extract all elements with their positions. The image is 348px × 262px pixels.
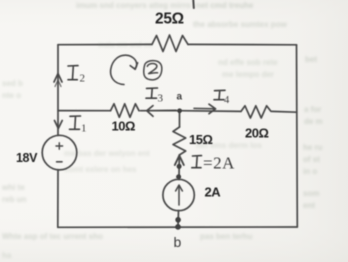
svg-text:somt exlere on hes: somt exlere on hes — [64, 165, 137, 174]
svg-text:ent: ent — [303, 201, 315, 210]
svg-text:nd effe sob rete: nd effe sob rete — [218, 58, 278, 67]
svg-text:imum snd conyers atteg mirro: imum snd conyers atteg mirro — [76, 1, 191, 10]
svg-text:20Ω: 20Ω — [245, 126, 268, 141]
svg-text:me lempo der: me lempo der — [222, 70, 274, 79]
svg-text:nte o: nte o — [2, 91, 21, 100]
svg-text:reb un: reb un — [2, 195, 27, 204]
svg-text:15Ω: 15Ω — [189, 132, 212, 147]
svg-text:25Ω: 25Ω — [155, 11, 184, 28]
svg-text:ha: ha — [2, 251, 12, 260]
svg-text:4: 4 — [224, 95, 230, 106]
svg-text:=2A: =2A — [203, 154, 235, 173]
svg-text:18V: 18V — [16, 151, 38, 165]
svg-text:2A: 2A — [205, 185, 222, 200]
svg-text:pas ben terhu: pas ben terhu — [200, 232, 253, 241]
svg-text:a for: a for — [304, 105, 321, 114]
svg-text:net cmd treuhe: net cmd treuhe — [196, 1, 254, 10]
svg-text:of st: of st — [303, 155, 320, 164]
svg-text:sed b: sed b — [2, 79, 23, 88]
svg-text:2: 2 — [80, 73, 86, 85]
svg-text:the absorbe sumtex pow: the absorbe sumtex pow — [193, 20, 288, 29]
svg-text:b: b — [174, 234, 182, 250]
svg-text:in o: in o — [303, 167, 317, 176]
svg-text:he ru: he ru — [303, 143, 323, 152]
svg-text:de m: de m — [304, 117, 323, 126]
svg-text:bet: bet — [305, 55, 317, 64]
svg-text:som: som — [303, 189, 319, 198]
svg-text:a: a — [177, 92, 183, 103]
svg-text:3: 3 — [158, 93, 164, 105]
svg-text:Whte asp of tec urrent sho: Whte asp of tec urrent sho — [2, 232, 103, 241]
svg-text:1: 1 — [81, 123, 87, 135]
svg-text:10Ω: 10Ω — [112, 119, 135, 134]
svg-text:mstu ern snd co: mstu ern snd co — [98, 42, 152, 49]
svg-text:whi te: whi te — [1, 183, 25, 192]
